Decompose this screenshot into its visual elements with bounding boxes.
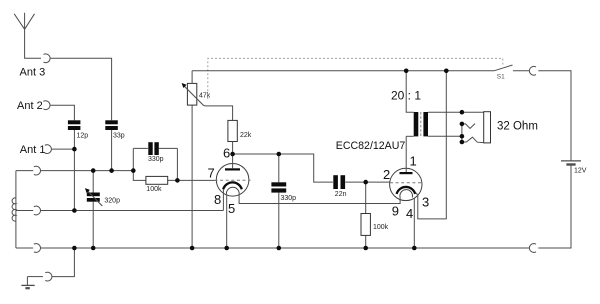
svg-text:ECC82/12AU7: ECC82/12AU7 — [336, 140, 406, 152]
svg-text:6: 6 — [223, 146, 230, 161]
wire Ant1 to node — [51, 148, 74, 150]
dashed mechanical link pot to switch — [208, 58, 503, 99]
svg-text:8: 8 — [214, 192, 221, 207]
power rail from pot to switch — [192, 70, 494, 72]
wire cathode pin3 to rail — [416, 71, 446, 219]
svg-text:Ant 2: Ant 2 — [17, 100, 43, 112]
earphone jack 32 Ohm — [462, 112, 538, 143]
svg-text:100k: 100k — [146, 186, 162, 193]
capacitor 330p plate bypass — [271, 154, 296, 248]
wire Ant2 to 12p — [50, 105, 74, 120]
potentiometer 47k — [182, 71, 211, 248]
capacitor 33p — [105, 120, 124, 139]
svg-text:320p: 320p — [104, 197, 120, 204]
wire cathode pin8 down — [222, 190, 224, 211]
wire plate node to coupling — [233, 154, 333, 182]
wire connector to battery top — [538, 71, 571, 161]
svg-text:12V: 12V — [574, 167, 587, 174]
connector Ant1 plug — [45, 145, 52, 154]
svg-text:47k: 47k — [199, 92, 211, 99]
connector coil mid tap — [34, 206, 41, 215]
capacitor 330p grid — [133, 142, 177, 163]
svg-text:S1: S1 — [497, 74, 505, 81]
wire heater series link U1a to U1b — [239, 194, 400, 204]
svg-text:9: 9 — [392, 204, 399, 219]
wire mid tap to cathode pin8 — [41, 210, 224, 212]
svg-text:1: 1 — [410, 154, 417, 169]
resistor 100k grid leak — [133, 148, 177, 192]
inductor L1 antenna coil — [12, 171, 33, 248]
wire wiper to 22k — [203, 105, 232, 120]
wire 12p down to mid tap — [73, 130, 75, 211]
connector battery plus plug — [529, 66, 536, 75]
wire 33p down to tank line — [111, 130, 113, 171]
wire antenna to 33p — [50, 58, 112, 120]
battery 12V — [561, 161, 587, 174]
connector coil top tap — [34, 166, 41, 175]
capacitor 22n coupling — [333, 175, 346, 198]
wire tank top line — [41, 170, 134, 172]
svg-text:330p: 330p — [148, 156, 164, 163]
svg-text:7: 7 — [208, 166, 215, 181]
wire 22n to grid2 — [345, 181, 389, 183]
wire 22k to plate node — [232, 142, 234, 155]
svg-text:5: 5 — [228, 201, 235, 216]
connector ground plug — [45, 272, 52, 281]
triode U1b ECC82 — [390, 136, 422, 200]
svg-text:3: 3 — [422, 195, 429, 210]
wire ground connector to bus — [52, 248, 75, 277]
svg-text:Ant 1: Ant 1 — [20, 144, 46, 156]
svg-text:Ant 3: Ant 3 — [20, 67, 46, 79]
svg-text:22k: 22k — [240, 132, 252, 139]
wire grid1 — [177, 179, 216, 181]
connector coil bottom tap — [34, 244, 41, 253]
wire heater pin4 to bus — [413, 198, 415, 248]
resistor 100k grid2 — [361, 182, 389, 248]
transformer T1 20:1 — [406, 71, 462, 137]
svg-text:12p: 12p — [77, 132, 89, 139]
svg-text:2: 2 — [383, 167, 390, 182]
variable capacitor 320p — [85, 171, 120, 248]
svg-text:20 : 1: 20 : 1 — [391, 89, 421, 103]
wire ground to connector — [27, 276, 43, 278]
wire heater pin5 to bus — [226, 194, 228, 248]
svg-text:330p: 330p — [281, 195, 297, 202]
resistor 22k — [228, 120, 252, 141]
connector Ant3 plug — [44, 54, 51, 63]
connector ground bus plug — [529, 244, 536, 253]
connector Ant2 plug — [43, 101, 50, 110]
svg-text:32 Ohm: 32 Ohm — [497, 121, 538, 133]
wire bus to battery — [538, 164, 571, 248]
wire ground bus — [41, 247, 530, 249]
antenna symbol — [14, 13, 41, 59]
svg-text:100k: 100k — [373, 224, 389, 231]
capacitor 12p — [68, 120, 88, 139]
svg-text:33p: 33p — [113, 132, 125, 139]
ground symbol — [21, 277, 34, 289]
svg-text:4: 4 — [406, 206, 413, 221]
switch S1 — [494, 65, 529, 81]
svg-text:22n: 22n — [335, 191, 347, 198]
triode U1a ECC82 — [215, 154, 251, 196]
